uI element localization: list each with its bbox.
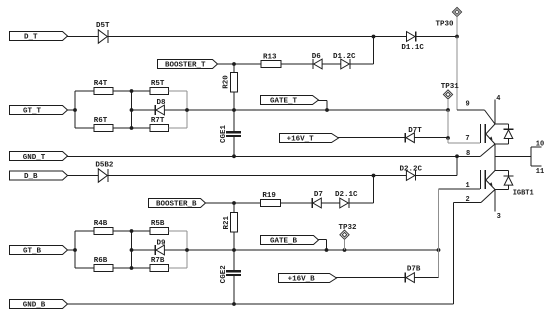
junction D_T / booster-T riser (372, 35, 376, 39)
wire CGE1 to GND_T (233, 137, 235, 156)
freewheel diode bottom (495, 170, 509, 172)
net flag +16V_B (279, 274, 337, 283)
svg-text:D9: D9 (157, 240, 167, 248)
junction GT_B split (73, 248, 77, 252)
svg-text:D8: D8 (157, 99, 167, 107)
wire top emitter to mid node (494, 144, 496, 171)
svg-text:IGBT1: IGBT1 (513, 190, 534, 198)
net flag GATE_T (261, 96, 319, 105)
svg-text:CGE1: CGE1 (220, 125, 228, 144)
test point TP30 (452, 7, 461, 16)
resistor R21 (231, 213, 238, 233)
igbt Q-top emitter diagonal (486, 134, 495, 144)
wire D2.2C to GND_T riser (416, 175, 458, 177)
igbt Q-bot collector diagonal (486, 171, 495, 181)
wire D1.1C to TP30 column (416, 36, 457, 38)
junction right bracket B gate row (185, 248, 189, 252)
wire D7 to D2.1C (321, 202, 340, 204)
wire GND_B main (67, 303, 454, 305)
wire gate row B to R21 column (187, 249, 234, 251)
wire D7B to pin1 column (414, 277, 438, 279)
diode D7B (406, 273, 414, 283)
svg-text:D_B: D_B (24, 173, 38, 181)
wire TP31 stem (447, 99, 449, 110)
svg-text:D7: D7 (314, 191, 323, 199)
junction gate row / TP31 (446, 108, 450, 112)
wire pin 7 jog (447, 138, 449, 143)
resistor R7B (150, 265, 169, 272)
wire R6B to mid bus B (113, 267, 132, 269)
wire pin 2 to GND_B (453, 203, 455, 305)
wire gate row B GATE_B to TP32 (327, 249, 345, 251)
diode D7 (313, 198, 321, 208)
junction right bracket gate row (185, 108, 189, 112)
svg-text:TP32: TP32 (339, 224, 358, 232)
net flag GATE_B (261, 236, 319, 245)
wire gate row GATE_T to TP31 (327, 109, 448, 111)
test point TP32 (340, 230, 349, 239)
resistor R6B (94, 265, 113, 272)
diode D6 (314, 59, 322, 69)
wire pin 2 row (454, 202, 482, 204)
wire gate row R20 to GATE_T (234, 109, 327, 111)
diode D2.1C (340, 198, 348, 208)
wire R13 to D6 (281, 63, 313, 65)
wire R20 to gate row (233, 92, 235, 110)
wire mid bus B (131, 231, 133, 268)
wire mid bus to R5T (132, 90, 151, 92)
wire R4B to mid bus B (113, 230, 132, 232)
wire mid bus B to R7B (132, 267, 151, 269)
igbt Q-bot gate bar (480, 170, 482, 189)
wire gate row B R21 to GATE_B (234, 249, 327, 251)
net flag GT_T (10, 106, 68, 115)
wire GND_T to pin 8 (457, 155, 481, 157)
wire GATE_B drop (319, 239, 327, 241)
wire R5T to right bracket (169, 90, 188, 92)
wire BOOSTER_T junction to R20 (233, 64, 235, 73)
svg-text:TP30: TP30 (436, 20, 455, 28)
wire to R4B (75, 230, 94, 232)
junction mid bus bottom (130, 126, 134, 130)
svg-text:CGE2: CGE2 (220, 265, 228, 284)
wire pin 8 diagonal (481, 144, 496, 156)
wire mid bus B to R5B (132, 230, 151, 232)
junction mid bus B gate row (130, 248, 134, 252)
svg-text:R13: R13 (263, 54, 277, 62)
junction GND_T / CGE1 (232, 154, 236, 158)
svg-text:+16V_T: +16V_T (287, 136, 315, 144)
wire gate row B to CGE2 (233, 250, 235, 270)
net flag BOOSTER_T (158, 60, 218, 69)
junction BOOSTER_B / R21 (232, 201, 236, 205)
diode D1.2C (341, 59, 349, 69)
junction gate row B / R21 (232, 248, 236, 252)
svg-text:GND_B: GND_B (23, 302, 46, 310)
igbt Q-top body bar (484, 124, 486, 143)
junction mid bus top (130, 89, 134, 93)
svg-text:D7B: D7B (407, 266, 421, 274)
svg-text:BOOSTER_T: BOOSTER_T (165, 62, 206, 70)
wire D1.2C up to D_T line (350, 63, 374, 65)
svg-text:GATE_B: GATE_B (270, 238, 298, 246)
wire mid bus to R7T (132, 127, 151, 129)
wire +16V_B to D7B (336, 277, 405, 279)
diode D8 (156, 105, 164, 115)
svg-text:GT_T: GT_T (23, 108, 42, 116)
svg-text:7: 7 (465, 135, 469, 143)
resistor R4T (94, 88, 113, 95)
output bracket pins 10/11 (530, 147, 532, 166)
freewheel diode top (495, 123, 509, 125)
wire D7T to gate column (414, 137, 448, 139)
diode D2.2C (406, 171, 414, 181)
svg-text:D2.2C: D2.2C (400, 165, 423, 173)
wire D6 to D1.2C (322, 63, 341, 65)
wire D2.1C up to D_B line (349, 202, 374, 204)
wire R4T to mid bus (113, 90, 132, 92)
wire GATE_T drop (318, 99, 327, 101)
svg-text:D_T: D_T (24, 34, 38, 42)
svg-text:10: 10 (536, 141, 544, 149)
net flag +16V_T (280, 134, 339, 143)
svg-text:9: 9 (466, 101, 470, 109)
svg-text:R4T: R4T (94, 80, 108, 88)
capacitor CGE2 (226, 270, 241, 272)
wire R19 to D7 (281, 202, 313, 204)
svg-text:BOOSTER_B: BOOSTER_B (156, 201, 197, 209)
wire D8 to right bracket (164, 109, 187, 111)
wire mid bus B to D9 (132, 249, 156, 251)
wire gate row to CGE1 (233, 110, 235, 131)
igbt Q-bot body bar (484, 170, 486, 189)
svg-text:GT_B: GT_B (23, 248, 42, 256)
wire +16V_T to D7T (338, 137, 405, 139)
junction D_B / booster-B riser (372, 174, 376, 178)
svg-text:1: 1 (466, 182, 470, 190)
resistor R13 (261, 61, 281, 68)
wire to R4T (75, 90, 94, 92)
wire TP30 stem (456, 17, 458, 37)
wire R6T to mid bus (113, 127, 132, 129)
svg-text:R5T: R5T (151, 80, 165, 88)
wire R7T to right bracket (169, 127, 188, 129)
wire mid bus (131, 91, 133, 128)
wire D5B2 to D2.2C (108, 175, 406, 177)
wire pin 9 row (457, 109, 485, 111)
svg-text:R4B: R4B (94, 220, 108, 228)
diode D5T (98, 30, 107, 43)
svg-text:D1.2C: D1.2C (333, 53, 356, 61)
resistor R5B (150, 228, 169, 235)
svg-text:R21: R21 (223, 215, 231, 229)
wire mid node tap to output bracket (495, 155, 531, 157)
svg-text:D2.1C: D2.1C (335, 191, 358, 199)
wire +16V_B column down (438, 250, 440, 278)
wire pin 9 diagonal to collector (485, 110, 496, 124)
net flag D_B (10, 171, 68, 180)
junction mid bus B bottom (130, 266, 134, 270)
wire GT_B split bus (74, 231, 76, 268)
junction mid bus B top (130, 229, 134, 233)
wire right bracket (186, 91, 188, 128)
wire BOOSTER_B junction to R21 (233, 203, 235, 213)
diode D5B2 (98, 169, 107, 182)
junction gate row B / pin1 column (437, 248, 441, 252)
svg-text:TP31: TP31 (441, 83, 460, 91)
svg-text:GND_T: GND_T (23, 154, 46, 162)
junction gate row / R20 (232, 108, 236, 112)
junction gate row B / GATE_B (325, 248, 329, 252)
wire BOOSTER_T to R13 (217, 63, 261, 65)
wire gate column to pin 7 row (447, 110, 449, 138)
svg-text:D6: D6 (312, 53, 322, 61)
junction gate row B / TP32 (343, 248, 347, 252)
junction GND_T / D2.2C riser (455, 154, 459, 158)
wire pin 4 collector stub (494, 100, 496, 125)
resistor R5T (150, 88, 169, 95)
igbt Q-bot emitter diagonal (486, 180, 495, 190)
junction mid bus gate row (130, 108, 134, 112)
wire right bracket B (186, 231, 188, 268)
wire to R6B (75, 267, 94, 269)
wire gate row to R20 column (187, 109, 234, 111)
junction GT_T split (73, 108, 77, 112)
svg-text:R5B: R5B (151, 220, 165, 228)
wire D_T column down to pin 9 row (456, 37, 458, 111)
svg-text:GATE_T: GATE_T (270, 98, 298, 106)
igbt Q-top gate bar (480, 124, 482, 143)
resistor R7T (150, 125, 169, 132)
capacitor CGE1 (226, 131, 241, 133)
wire GT_T split bus (74, 91, 76, 128)
wire D_B flag to D5B2 (67, 175, 98, 177)
net flag GND_B (10, 300, 68, 309)
svg-text:R6B: R6B (94, 257, 108, 265)
wire mid bus to D8 (132, 109, 156, 111)
junction gate column / +16V_T (446, 136, 450, 140)
svg-text:+16V_B: +16V_B (288, 276, 316, 284)
svg-text:2: 2 (466, 196, 470, 204)
wire GND_T main (67, 155, 457, 157)
wire D_T flag to D5T (67, 36, 98, 38)
svg-text:D7T: D7T (408, 127, 422, 135)
wire GT_B to split (67, 249, 75, 251)
wire R5B to right bracket B (169, 230, 188, 232)
wire R21 to gate row B (233, 232, 235, 250)
wire R7B to right bracket B (169, 267, 188, 269)
resistor R20 (231, 73, 238, 93)
svg-text:R7T: R7T (151, 117, 165, 125)
net flag GND_T (10, 152, 68, 161)
resistor R19 (261, 200, 281, 207)
wire D5T to D1.1C (108, 36, 407, 38)
diode D9 (156, 245, 164, 255)
junction GND_B / CGE2 (232, 302, 236, 306)
net flag BOOSTER_B (149, 199, 206, 208)
svg-text:R19: R19 (262, 192, 276, 200)
wire GT_T to split (67, 109, 75, 111)
net flag GT_B (10, 246, 68, 255)
svg-text:11: 11 (536, 168, 544, 176)
wire pin 1 column up (438, 189, 440, 250)
net flag D_T (10, 32, 68, 41)
svg-text:3: 3 (497, 213, 501, 221)
wire pin 1 row (439, 188, 481, 190)
wire CGE2 to GND_B (233, 276, 235, 304)
junction gate row / GATE_T (325, 108, 329, 112)
igbt Q-top collector diagonal (486, 124, 495, 134)
test point TP31 (443, 90, 452, 99)
svg-text:4: 4 (496, 95, 500, 103)
svg-text:8: 8 (466, 150, 470, 158)
svg-text:D5B2: D5B2 (95, 162, 114, 170)
wire TP32 stem (344, 239, 346, 250)
wire gate row B TP32 to pin1 column (345, 249, 439, 251)
wire pin 3 emitter stub (494, 190, 496, 212)
junction D_T / TP30 (455, 35, 459, 39)
svg-text:R7B: R7B (151, 257, 165, 265)
resistor R4B (94, 228, 113, 235)
wire D9 to right bracket B (164, 249, 187, 251)
junction BOOSTER_T / R20 (232, 62, 236, 66)
wire pin 2 diagonal (481, 190, 495, 203)
resistor R6T (94, 125, 113, 132)
diode D7T (406, 133, 414, 143)
svg-text:R20: R20 (222, 75, 230, 89)
diode D1.1C (407, 32, 415, 42)
wire to R6T (75, 127, 94, 129)
svg-text:R6T: R6T (94, 117, 108, 125)
svg-text:D5T: D5T (96, 22, 110, 30)
svg-text:D1.1C: D1.1C (401, 44, 424, 52)
wire BOOSTER_B to R19 (206, 202, 261, 204)
